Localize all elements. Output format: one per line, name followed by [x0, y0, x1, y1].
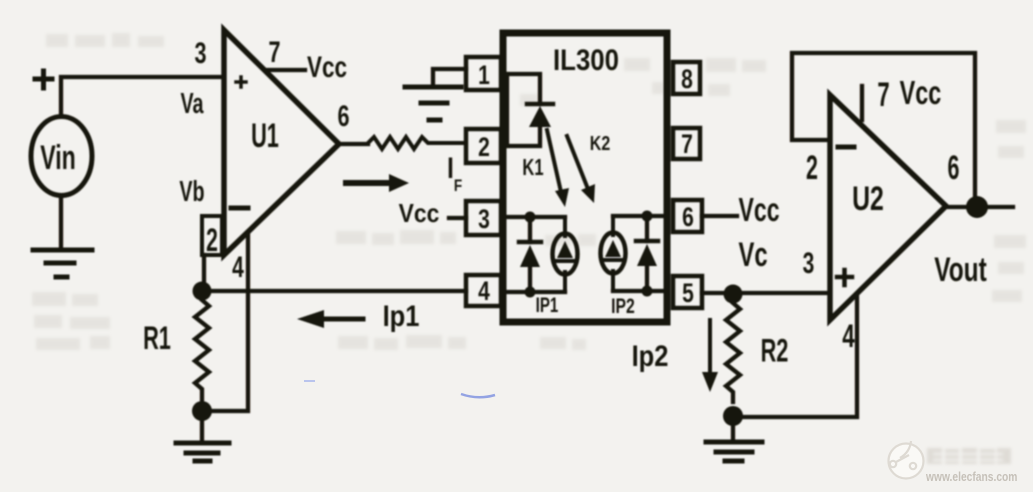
op-amp U1: [224, 30, 339, 255]
svg-text:Vin: Vin: [40, 140, 76, 177]
pin 5: [673, 276, 702, 308]
pin 7: [673, 128, 700, 159]
svg-text:1: 1: [478, 61, 490, 91]
svg-text:U2: U2: [852, 180, 884, 218]
faint bleed-through smudges (decorative): [32, 33, 1026, 350]
node E (output junction): [966, 196, 988, 218]
node A (R1 top junction): [193, 282, 212, 301]
svg-text:Ip2: Ip2: [632, 339, 669, 372]
svg-text:3: 3: [803, 248, 815, 280]
resistor R2: [726, 303, 740, 402]
pin 8: [673, 62, 700, 94]
pin 2: [466, 129, 501, 163]
photodiode IP1: [553, 234, 578, 275]
current arrow Ip2: [708, 320, 712, 374]
diode (IP1 left): [528, 217, 532, 242]
svg-text:6: 6: [337, 98, 349, 132]
svg-text:3: 3: [478, 205, 490, 235]
wire R2 bottom to ground: [731, 426, 735, 440]
svg-text:K1: K1: [522, 155, 543, 180]
svg-text:Vb: Vb: [179, 176, 204, 208]
svg-text:5: 5: [682, 279, 694, 309]
diode (IP2 right): [645, 216, 649, 241]
svg-text:Vcc: Vcc: [900, 75, 942, 112]
blue pen mark: [461, 394, 495, 397]
pin 2 box: [202, 216, 222, 255]
inverting - symbol: [231, 206, 248, 211]
watermark logo: [889, 441, 924, 479]
svg-text:7: 7: [877, 76, 889, 114]
wire R1 bottom to ground: [200, 421, 204, 440]
svg-text:R2: R2: [761, 332, 789, 368]
IC IL300 package: [503, 33, 667, 322]
pin 3: [466, 201, 501, 235]
current arrow Ip1: [324, 317, 363, 322]
current arrow IF: [346, 180, 390, 186]
feedback wire U2 output to inverting input: [792, 53, 975, 200]
wire U1 output: [339, 142, 368, 146]
svg-text:Vc: Vc: [738, 236, 767, 274]
svg-text:7: 7: [268, 34, 280, 68]
svg-text:2: 2: [806, 149, 818, 187]
LED K1 (pins 1-2): [506, 74, 540, 104]
svg-text:3: 3: [194, 35, 206, 69]
wire Vin top to U1 pin3: [61, 77, 224, 114]
ground (below Vin): [33, 248, 92, 253]
pin 7 stub: [860, 86, 864, 120]
emission arrow K2: [567, 136, 588, 189]
wire pin5 to U2 pin3: [702, 291, 830, 295]
ground (below R1): [176, 441, 229, 446]
wire Vcc to pin3: [449, 216, 466, 220]
plus terminal: [35, 71, 52, 88]
source Vin: [31, 117, 92, 196]
svg-text:Ip1: Ip1: [383, 299, 420, 332]
resistor (U1 output series): [368, 137, 466, 149]
pin 6: [673, 200, 702, 232]
wire U2 pin4 to R2 bottom: [743, 294, 857, 417]
svg-text:Vcc: Vcc: [399, 200, 440, 229]
svg-text:7: 7: [681, 130, 693, 160]
op-amp U2: [830, 95, 946, 320]
emission arrow K1: [547, 130, 561, 192]
svg-text:R1: R1: [143, 320, 171, 356]
svg-text:U1: U1: [251, 117, 279, 155]
resistor R1: [195, 300, 209, 402]
photodiode IP2: [613, 214, 667, 218]
photodiode branch IP1 rails: [506, 215, 565, 219]
svg-text:4: 4: [842, 318, 855, 354]
pin 4: [466, 275, 501, 306]
node B (R1 bottom junction): [192, 401, 212, 421]
wire U1 pin2 down to node: [202, 255, 206, 291]
svg-text:IL300: IL300: [553, 43, 619, 76]
wire U1 pin4 down: [212, 233, 248, 411]
svg-text:www.elecfans.com: www.elecfans.com: [925, 470, 1017, 484]
svg-text:Vcc: Vcc: [738, 192, 779, 229]
svg-text:2: 2: [206, 221, 218, 258]
pin 7 Vcc stub: [266, 68, 305, 72]
ground (pin 1 of IL300): [433, 69, 466, 85]
node C (R2 top junction): [724, 285, 743, 304]
inverting - symbol: [838, 145, 854, 150]
noninverting + symbol: [837, 270, 852, 285]
svg-text:6: 6: [682, 203, 694, 233]
pin 1: [466, 57, 501, 90]
wire node A to IL300 pin4: [212, 289, 466, 293]
wire pin6 to Vcc: [702, 214, 737, 218]
svg-text:F: F: [454, 177, 462, 196]
svg-text:4: 4: [478, 277, 490, 307]
wire U2 output: [946, 205, 1013, 209]
svg-text:4: 4: [232, 252, 244, 284]
svg-text:I: I: [447, 150, 454, 184]
noninverting + symbol: [236, 77, 246, 87]
svg-text:8: 8: [681, 65, 693, 95]
svg-text:K2: K2: [590, 132, 610, 154]
svg-text:6: 6: [948, 149, 960, 187]
svg-text:IP2: IP2: [611, 294, 635, 318]
svg-text:Va: Va: [180, 88, 203, 120]
svg-text:Vout: Vout: [934, 251, 987, 289]
ground (below R2): [706, 440, 762, 445]
svg-text:2: 2: [478, 133, 490, 163]
watermark text: [927, 448, 1011, 464]
svg-text:Vcc: Vcc: [307, 50, 347, 84]
node D (R2 bottom junction): [723, 406, 743, 426]
wire Vin bottom to ground: [59, 198, 63, 250]
svg-text:IP1: IP1: [536, 292, 559, 316]
